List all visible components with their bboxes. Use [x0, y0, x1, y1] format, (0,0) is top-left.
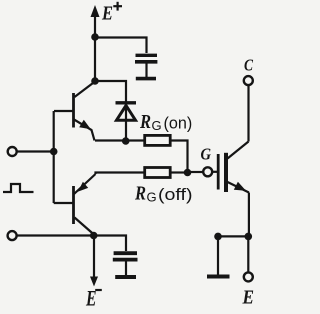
wire: gate circle to IGBT gate [212, 171, 217, 173]
resistor RG(on) [145, 135, 171, 145]
svg-text:R: R [134, 183, 146, 205]
wire: emitter node to E terminal [247, 236, 249, 272]
ground bar under C1 [136, 77, 156, 81]
wire: bus to Q2 base [54, 202, 73, 204]
label RG(off) [134, 183, 192, 205]
diode D1 (gate clamp) [116, 103, 137, 141]
wire: input bus vertical [53, 111, 55, 203]
wire: terminal 2 to E- node [17, 234, 94, 236]
wire: RG(off) to gate node [170, 171, 186, 173]
svg-text:G: G [152, 118, 162, 133]
resistor RG(off) [145, 168, 171, 178]
svg-text:R: R [139, 111, 151, 133]
wire: down to ground [217, 236, 219, 274]
node: junction dot (emitter node right) [245, 233, 253, 241]
svg-text:E: E [85, 286, 96, 311]
wire: Q1 emitter to RG(on) [95, 139, 144, 141]
input terminal 1 (upper left) [8, 147, 17, 156]
label RG(on) [139, 111, 192, 133]
node: junction dot (E- node) [90, 232, 98, 240]
wire: emitter node to ground branch [218, 235, 248, 237]
label E+ [101, 2, 122, 25]
svg-text:G: G [201, 145, 212, 164]
transistor Q1 (upper NPN) [54, 82, 95, 141]
svg-text:(on): (on) [164, 114, 193, 133]
svg-text:(off): (off) [158, 185, 193, 204]
label E- [85, 286, 102, 311]
wire: IGBT collector lead [247, 86, 249, 142]
svg-text:E: E [242, 287, 254, 309]
wire: Q2 emitter to RG(off) [96, 173, 145, 175]
node: junction dot (ground branch) [214, 233, 222, 241]
wire: gate node to gate terminal [188, 171, 204, 173]
wire: terminal 1 to bus [17, 150, 54, 152]
node: junction dot (Q1 collector / diode branch) [91, 77, 99, 85]
wire: E- node to capacitor C2 [94, 236, 126, 252]
IGBT U1 [218, 142, 249, 193]
pulse waveform symbol [3, 184, 34, 192]
ground bar under C2 [115, 275, 136, 279]
power rail E- arrow [90, 236, 98, 287]
wire: IGBT emitter lead [248, 193, 250, 237]
node: junction dot on E+ rail (cap tap) [91, 33, 99, 41]
wire: rail node to diode cathode [95, 81, 126, 103]
svg-text:G: G [147, 190, 157, 205]
node: junction dot on input bus [50, 148, 58, 156]
terminal C circle [244, 76, 253, 85]
svg-text:C: C [244, 56, 254, 75]
capacitor C1 (decoupling, E+ rail) [135, 55, 157, 77]
node: junction dot (gate node) [184, 169, 192, 177]
terminal E circle [244, 272, 253, 281]
node: junction dot (diode anode on RG(on) wire) [122, 137, 130, 145]
power rail E+ arrow [91, 5, 100, 81]
wire: RG(on) to gate node [170, 141, 187, 173]
input terminal 2 (lower left) [8, 231, 17, 240]
wire: rail to capacitor C1 [95, 38, 147, 54]
transistor Q2 (lower PNP) [74, 174, 96, 235]
capacitor C2 (decoupling, E- rail) [113, 253, 138, 275]
ground [207, 275, 230, 279]
svg-text:E: E [101, 3, 113, 25]
gate terminal circle [203, 167, 212, 176]
